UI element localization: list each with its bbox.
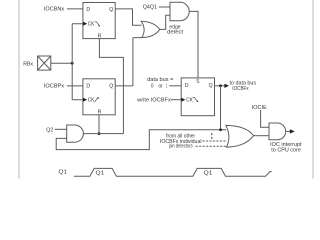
wire IOCBNx to D of U1 [67, 8, 83, 10]
svg-text:Q1: Q1 [58, 169, 67, 175]
svg-text:D: D [185, 83, 189, 89]
svg-text:0: 0 [151, 84, 154, 90]
svg-text:R: R [98, 33, 102, 39]
U1 falling edge symbol [95, 22, 100, 26]
wire dashed other-pin input 1 [202, 140, 226, 142]
node ellipsis dots [211, 133, 213, 135]
svg-text:D: D [86, 83, 90, 89]
U2 CK input triangle [83, 98, 87, 102]
node CK net junction [71, 62, 74, 65]
svg-text:IOCBFx: IOCBFx [232, 86, 249, 92]
wire write IOCBFx to CK of U3 [171, 99, 181, 101]
wire U1 R to riser [99, 39, 123, 134]
svg-text:Q: Q [109, 7, 114, 13]
wire CK vertical net [72, 24, 83, 100]
svg-text:S: S [196, 79, 199, 85]
pin pad RBx (crossed box) [38, 56, 51, 70]
flip-flop U1 (negative edge detect D latch) [83, 3, 115, 40]
wire dashed other-pin input 2 [196, 145, 227, 147]
frame left border [18, 0, 20, 179]
U1 CK input triangle [83, 22, 87, 26]
svg-text:IOCBPx: IOCBPx [44, 83, 65, 89]
svg-text:data bus =: data bus = [147, 77, 173, 83]
and-gate U4 (Q4Q1 gate) [170, 2, 189, 20]
svg-text:Q1: Q1 [204, 170, 213, 176]
svg-text:Q: Q [109, 83, 114, 89]
wire U3 Q drop to OR U7 [220, 86, 222, 130]
node feedback junction [219, 128, 222, 131]
svg-text:Q2: Q2 [46, 127, 53, 133]
and-gate U6 (Q2 reset gate) [67, 125, 84, 142]
wire U2 Q to riser [115, 85, 133, 87]
svg-text:D: D [86, 7, 90, 13]
svg-text:Q: Q [209, 83, 214, 89]
svg-text:pin detectors: pin detectors [169, 144, 193, 150]
svg-text:IOCIE: IOCIE [252, 105, 268, 111]
svg-text:CK: CK [186, 98, 193, 104]
flip-flop U2 (positive edge detect D latch) [83, 79, 115, 116]
wire shared riser (OR input / reset) [133, 38, 142, 86]
svg-text:to CPU core: to CPU core [271, 147, 301, 153]
wire data bus to D of U3 [169, 85, 181, 87]
or-gate U7 (all pins combine) [226, 125, 254, 147]
and-gate U8 (interrupt enable gate) [269, 123, 286, 140]
wire Q2 to AND U6 [55, 128, 67, 130]
svg-text:R: R [98, 110, 102, 116]
U3 CK input triangle [181, 98, 185, 102]
svg-text:Q1: Q1 [96, 170, 105, 176]
wire U5 output to AND U4 lower input [160, 15, 170, 29]
node IOCBFx output junction [219, 84, 222, 87]
svg-text:or: or [158, 84, 163, 90]
wire U1 Q to OR U5 top input [115, 9, 141, 25]
arrow to data bus [224, 84, 229, 88]
wire IOCIE to AND U8 [261, 110, 269, 127]
wire feedback from IOCBFx node to U6 [56, 130, 226, 150]
waveform Q1 [74, 168, 272, 176]
wire U8 output [286, 130, 290, 132]
svg-text:write IOCBFx: write IOCBFx [137, 98, 171, 104]
U2 rising edge symbol [94, 98, 99, 102]
U3 edge symbol [193, 98, 197, 102]
svg-text:RBx: RBx [23, 62, 33, 68]
wire U4 output down to S of U3 [189, 11, 198, 78]
wire IOCBPx to D of U2 [67, 85, 83, 87]
frame right border [312, 0, 314, 179]
svg-text:detect: detect [167, 29, 184, 35]
svg-text:Q4Q1: Q4Q1 [143, 5, 157, 11]
wire Q4Q1 to AND U4 [159, 6, 170, 8]
svg-text:IOCBNx: IOCBNx [44, 6, 65, 12]
wire U2 R drop [98, 115, 100, 134]
wire RBx to CK net [51, 62, 72, 64]
wire U3 Q to data bus arrow [215, 85, 225, 87]
svg-text:CK: CK [88, 22, 95, 28]
flip-flop U3 (IOCBFx latch) [181, 78, 214, 116]
svg-text:CK: CK [88, 98, 95, 104]
wire U6 output to R riser [83, 133, 123, 135]
svg-text:1: 1 [166, 84, 168, 90]
or-gate U5 (edge combine) [141, 21, 160, 37]
node R junction [98, 132, 101, 135]
arrow IOC interrupt [290, 129, 295, 133]
wire U7 output to AND U8 [254, 135, 270, 137]
